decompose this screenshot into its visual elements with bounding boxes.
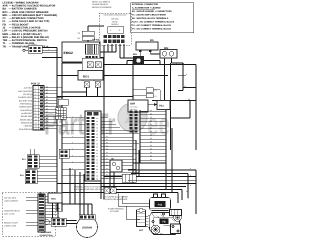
svg-text:00: 00 bbox=[46, 111, 48, 113]
svg-text:00: 00 bbox=[106, 171, 108, 173]
svg-text:—: — bbox=[9, 8, 12, 11]
svg-text:00: 00 bbox=[150, 148, 152, 150]
svg-text:00: 00 bbox=[46, 127, 48, 129]
svg-text:00: 00 bbox=[106, 155, 108, 157]
TB-N2 terminal rows bbox=[92, 35, 125, 43]
svg-text:B1 - MAJOR LEGEND + CONNECTORS: B1 - MAJOR LEGEND + CONNECTORS bbox=[132, 10, 172, 12]
svg-text:0: 0 bbox=[44, 46, 45, 48]
svg-text:60 HZ: 60 HZ bbox=[112, 21, 117, 23]
PCB J2 row 8 bbox=[21, 108, 57, 111]
svg-text:00: 00 bbox=[150, 134, 152, 136]
svg-text:CHARGE INPUT: CHARGE INPUT bbox=[18, 97, 32, 99]
svg-text:TB2: TB2 bbox=[3, 39, 8, 42]
svg-text:0: 0 bbox=[72, 116, 73, 118]
svg-text:—: — bbox=[9, 27, 12, 30]
wire MM verticals down bbox=[165, 58, 184, 150]
svg-text:T1 - 240V/50 AMP CIRCUIT BRKR: T1 - 240V/50 AMP CIRCUIT BRKR bbox=[132, 14, 166, 16]
svg-text:NOT USED: NOT USED bbox=[110, 211, 119, 213]
svg-text:COIL 12 VDC: COIL 12 VDC bbox=[4, 213, 15, 215]
wire verticals center-bottom bbox=[110, 130, 139, 188]
svg-text:02: 02 bbox=[96, 156, 98, 158]
svg-text:LOW OIL PRESSURE SWITCH: LOW OIL PRESSURE SWITCH bbox=[12, 30, 48, 33]
J1 pin row 17 bbox=[62, 168, 136, 171]
svg-text:BO1: BO1 bbox=[3, 11, 8, 14]
watermark tree logo bbox=[118, 103, 147, 132]
wire BO1 feeders bbox=[57, 60, 133, 100]
svg-text:02: 02 bbox=[96, 124, 98, 126]
J1 pin row 8 bbox=[87, 139, 136, 142]
svg-text:BA: BA bbox=[3, 8, 7, 11]
junction dots bbox=[56, 51, 166, 204]
svg-text:06: 06 bbox=[96, 137, 98, 139]
svg-text:00: 00 bbox=[46, 89, 48, 91]
T1 rung 8 bbox=[140, 134, 166, 136]
svg-text:LFP: LFP bbox=[3, 30, 8, 33]
T1 rung 14 bbox=[140, 155, 166, 157]
svg-text:10: 10 bbox=[35, 116, 37, 118]
svg-text:06: 06 bbox=[96, 169, 98, 171]
legend list top-left bbox=[3, 1, 58, 48]
PCB J2 row 3 bbox=[23, 92, 57, 95]
customer connections dashed box bottom bbox=[2, 192, 55, 236]
stator bbox=[77, 215, 98, 238]
svg-text:C2: C2 bbox=[78, 32, 81, 34]
svg-text:SENSE 240V: SENSE 240V bbox=[21, 116, 32, 118]
svg-text:AVR: AVR bbox=[130, 103, 135, 106]
svg-text:03: 03 bbox=[96, 127, 98, 129]
svg-text:R1: R1 bbox=[78, 37, 81, 39]
svg-text:FIELD BOOST: FIELD BOOST bbox=[12, 23, 29, 26]
svg-text:4: 4 bbox=[35, 97, 36, 99]
svg-text:SW1: SW1 bbox=[51, 198, 56, 200]
svg-text:00: 00 bbox=[150, 110, 152, 112]
svg-text:CMN GROUND: CMN GROUND bbox=[19, 128, 32, 130]
svg-text:00: 00 bbox=[46, 96, 48, 98]
svg-text:00: 00 bbox=[106, 136, 108, 138]
svg-text:00: 00 bbox=[150, 113, 152, 115]
svg-text:—: — bbox=[9, 23, 12, 26]
svg-text:11: 11 bbox=[35, 119, 37, 121]
wire center vertical x101 bbox=[100, 120, 102, 199]
svg-text:0: 0 bbox=[72, 161, 73, 163]
FS2 label bbox=[155, 201, 166, 207]
engine wires left bbox=[118, 194, 150, 220]
svg-text:00: 00 bbox=[150, 124, 152, 126]
svg-text:01: 01 bbox=[96, 153, 98, 155]
svg-text:PL4: PL4 bbox=[20, 174, 24, 176]
fuses F1 F2 right bbox=[133, 88, 160, 101]
wire bottom bundle bbox=[57, 181, 196, 184]
J1 pin row 15 bbox=[62, 161, 139, 164]
svg-text:03: 03 bbox=[96, 159, 98, 161]
J1 pin row 10 bbox=[87, 145, 133, 148]
svg-text:MM: MM bbox=[164, 47, 168, 50]
svg-text:T1: T1 bbox=[3, 42, 6, 45]
PCB J2 row 2 bbox=[18, 89, 57, 92]
PCB J2 row 13 bbox=[24, 124, 62, 127]
svg-text:0: 0 bbox=[190, 185, 191, 187]
customer connections dashed box top bbox=[99, 13, 131, 45]
svg-text:05: 05 bbox=[96, 166, 98, 168]
svg-text:0: 0 bbox=[72, 129, 73, 131]
svg-text:240 VAC 60HZ: 240 VAC 60HZ bbox=[4, 197, 16, 199]
svg-text:—: — bbox=[9, 30, 12, 33]
svg-text:—: — bbox=[9, 5, 12, 8]
svg-text:12: 12 bbox=[35, 122, 37, 124]
svg-text:00: 00 bbox=[96, 118, 98, 120]
svg-text:00: 00 bbox=[106, 177, 108, 179]
svg-text:RELAY 1 (START RELAY): RELAY 1 (START RELAY) bbox=[12, 33, 42, 36]
svg-text:T5 - A/C CONNECT TERMINAL BLOC: T5 - A/C CONNECT TERMINAL BLOCK bbox=[132, 28, 171, 30]
PCB J2 row 10 bbox=[21, 115, 62, 118]
diode D2 block left of strip bbox=[59, 149, 69, 158]
svg-text:SUPPLY: SUPPLY bbox=[111, 24, 118, 26]
sender HR bbox=[110, 158, 122, 172]
svg-text:00: 00 bbox=[46, 121, 48, 123]
J1 pin row 7 bbox=[62, 136, 133, 139]
T1 rung 7 bbox=[140, 131, 166, 133]
svg-text:00: 00 bbox=[46, 105, 48, 107]
terminal strip TB bottom-left bbox=[38, 192, 45, 232]
connector plug in customer box bbox=[108, 27, 124, 34]
svg-text:REQUIRED PER NAMEPLATE: REQUIRED PER NAMEPLATE bbox=[103, 199, 127, 201]
svg-text:TB-N2: TB-N2 bbox=[92, 39, 99, 42]
svg-text:AUX OUT: AUX OUT bbox=[24, 87, 32, 89]
svg-text:00: 00 bbox=[46, 92, 48, 94]
svg-text:—: — bbox=[9, 42, 12, 45]
J1 pin row 1 bbox=[62, 116, 108, 119]
PCB J2 row 14 bbox=[19, 127, 57, 130]
T1 rung 13 bbox=[140, 152, 166, 154]
svg-text:00: 00 bbox=[46, 118, 48, 120]
svg-text:BA: BA bbox=[150, 39, 154, 42]
wire verticals from customer conn to EMG area bbox=[100, 44, 134, 58]
LFP cylinder bbox=[137, 209, 146, 232]
svg-text:PL3: PL3 bbox=[22, 158, 26, 160]
battery charger BA bbox=[136, 39, 165, 56]
svg-text:T4 - A/C CONNECT TERMINAL BLOC: T4 - A/C CONNECT TERMINAL BLOCK bbox=[132, 24, 171, 26]
svg-text:PCB J2: PCB J2 bbox=[31, 83, 40, 86]
svg-text:1: 1 bbox=[110, 29, 111, 31]
PCB J2 row 9 bbox=[21, 111, 57, 114]
T1 rung 15 bbox=[140, 159, 166, 161]
J1 pin row 18 bbox=[87, 171, 139, 174]
svg-text:12: 12 bbox=[184, 86, 186, 88]
svg-text:00: 00 bbox=[150, 117, 152, 119]
PCB J2 row 12 bbox=[21, 121, 57, 124]
svg-text:0: 0 bbox=[188, 198, 189, 200]
svg-text:00: 00 bbox=[150, 145, 152, 147]
svg-text:—: — bbox=[9, 45, 12, 48]
svg-text:FUSE 15A (F1 AND F2 15A TYP): FUSE 15A (F1 AND F2 15A TYP) bbox=[12, 20, 50, 23]
T1 rung 1 bbox=[140, 110, 166, 112]
svg-text:07: 07 bbox=[96, 140, 98, 142]
svg-text:—: — bbox=[9, 33, 12, 36]
J1 pin row 2 bbox=[87, 120, 112, 122]
relay MM bbox=[160, 47, 177, 58]
wire long top run to right edge bbox=[104, 65, 196, 151]
svg-text:INTERFACE CONNECTION: INTERFACE CONNECTION bbox=[12, 17, 44, 20]
svg-text:0: 0 bbox=[186, 74, 187, 76]
svg-text:0: 0 bbox=[72, 155, 73, 157]
svg-text:EMG2: EMG2 bbox=[64, 51, 73, 55]
svg-text:A. ALTERNATOR + LEGEND: A. ALTERNATOR + LEGEND bbox=[132, 7, 161, 9]
svg-text:LEGEND - WIRING DIAGRAM: LEGEND - WIRING DIAGRAM bbox=[3, 1, 39, 4]
svg-text:BATTERY CHARGER: BATTERY CHARGER bbox=[12, 8, 37, 11]
svg-text:RUN SIGNAL: RUN SIGNAL bbox=[21, 109, 33, 111]
svg-text:POWER TERMINAL: POWER TERMINAL bbox=[108, 208, 124, 210]
PCB J2 row 7 bbox=[19, 105, 62, 108]
svg-text:2-WIRE START: 2-WIRE START bbox=[4, 225, 17, 227]
svg-text:ADD JUMPER BLOCK WHERE: ADD JUMPER BLOCK WHERE bbox=[103, 196, 128, 198]
PCB J2 divider lines bbox=[33, 89, 44, 127]
PCB J2 row 4 bbox=[18, 96, 62, 99]
svg-text:GROUND 0V: GROUND 0V bbox=[21, 122, 32, 124]
svg-text:BR1: BR1 bbox=[3, 14, 8, 17]
svg-text:00: 00 bbox=[150, 120, 152, 122]
svg-text:7: 7 bbox=[35, 106, 36, 108]
svg-text:HR: HR bbox=[111, 158, 114, 160]
svg-text:0: 0 bbox=[190, 175, 191, 177]
wire left vertical bus pair bbox=[57, 58, 62, 212]
J1 pin row 14 bbox=[87, 158, 136, 161]
svg-text:0: 0 bbox=[190, 168, 191, 170]
svg-text:C1 CONN: C1 CONN bbox=[28, 43, 37, 45]
J1 pin row 20 bbox=[87, 177, 136, 180]
capacitor C2 small boxes above EMG2 bbox=[78, 26, 105, 42]
note text top-center bbox=[92, 1, 112, 8]
svg-text:BR1: BR1 bbox=[133, 54, 137, 56]
svg-text:14: 14 bbox=[35, 129, 37, 131]
svg-text:09: 09 bbox=[96, 146, 98, 148]
watermark PartsTree text bbox=[44, 108, 170, 142]
svg-text:—: — bbox=[9, 14, 12, 17]
svg-text:0: 0 bbox=[72, 174, 73, 176]
T1 rung 2 bbox=[140, 113, 166, 115]
J1 pin row 6 bbox=[87, 132, 139, 135]
svg-text:0: 0 bbox=[48, 49, 49, 51]
svg-text:F2: F2 bbox=[155, 95, 157, 97]
svg-text:5: 5 bbox=[35, 100, 36, 102]
svg-text:120 VAC: 120 VAC bbox=[111, 18, 118, 20]
svg-text:FOR 3-PHASE SEE DWG 0E2753 SHT: FOR 3-PHASE SEE DWG 0E2753 SHT 2 bbox=[74, 189, 106, 191]
J1 pin row 9 bbox=[62, 142, 139, 145]
switch TB2 pin column bbox=[130, 111, 138, 133]
svg-text:08: 08 bbox=[96, 143, 98, 145]
svg-text:ALARM OUT: ALARM OUT bbox=[21, 112, 32, 114]
svg-text:J2: J2 bbox=[3, 27, 6, 30]
PCB J2 row 1 bbox=[24, 86, 62, 89]
svg-text:2: 2 bbox=[119, 29, 120, 31]
svg-text:L2: L2 bbox=[93, 80, 95, 82]
PCB J2 row 6 bbox=[20, 102, 57, 105]
svg-text:00: 00 bbox=[106, 174, 108, 176]
svg-text:—: — bbox=[9, 39, 12, 42]
svg-text:MM1: MM1 bbox=[3, 33, 9, 36]
aux block under HR bbox=[122, 174, 136, 182]
svg-text:—: — bbox=[9, 20, 12, 23]
EMG2 module box bbox=[62, 42, 100, 62]
svg-text:TB: TB bbox=[39, 192, 42, 194]
svg-text:08: 08 bbox=[96, 175, 98, 177]
wire top horizontal runs bbox=[42, 46, 104, 63]
svg-text:00: 00 bbox=[106, 132, 108, 134]
svg-text:0: 0 bbox=[72, 142, 73, 144]
note power terminal bbox=[108, 208, 124, 213]
svg-text:CONNECTOR J ON PCB: CONNECTOR J ON PCB bbox=[12, 27, 41, 30]
wires stator feeders bbox=[53, 168, 93, 224]
svg-text:LFP: LFP bbox=[139, 229, 143, 231]
BO1 terminals L1 L2 bbox=[82, 80, 101, 87]
svg-text:STATOR: STATOR bbox=[82, 226, 92, 229]
svg-text:04: 04 bbox=[96, 162, 98, 164]
svg-text:00: 00 bbox=[46, 115, 48, 117]
engine assembly outline bbox=[137, 194, 182, 235]
arrow AVR to TB3 bbox=[148, 103, 157, 106]
connector PL3 bbox=[22, 149, 57, 168]
svg-text:C1: C1 bbox=[3, 17, 6, 20]
svg-text:00: 00 bbox=[106, 145, 108, 147]
svg-text:VOLT REG: VOLT REG bbox=[130, 106, 137, 108]
fuse block F1 F2 bbox=[82, 58, 103, 70]
T1 rung 9 bbox=[140, 138, 166, 140]
svg-text:AVR: AVR bbox=[3, 5, 8, 8]
connector PL4 bbox=[20, 170, 57, 184]
svg-text:TR: TR bbox=[3, 45, 7, 48]
svg-text:REMOTE START: REMOTE START bbox=[4, 222, 18, 224]
svg-text:00: 00 bbox=[46, 108, 48, 110]
svg-text:04: 04 bbox=[96, 130, 98, 132]
relay SW1 bbox=[48, 193, 62, 203]
svg-text:0: 0 bbox=[72, 123, 73, 125]
circuit breaker BR1 bbox=[127, 54, 160, 65]
svg-text:00: 00 bbox=[106, 168, 108, 170]
relay K1 bbox=[56, 97, 69, 119]
svg-text:LOAD CONNECT: LOAD CONNECT bbox=[4, 200, 18, 202]
svg-text:00: 00 bbox=[150, 159, 152, 161]
svg-text:BO1: BO1 bbox=[83, 75, 89, 78]
terminal strip T1 ladder bbox=[133, 110, 166, 190]
svg-text:18 AWG UNLESS: 18 AWG UNLESS bbox=[92, 4, 108, 6]
svg-text:RELAY 2 (ENGINE RUN RELAY): RELAY 2 (ENGINE RUN RELAY) bbox=[12, 36, 49, 39]
regulator AVR bbox=[128, 100, 148, 112]
svg-text:00: 00 bbox=[106, 142, 108, 144]
svg-text:CONNECTIONS: CONNECTIONS bbox=[39, 234, 52, 236]
svg-text:ADJ 240V: ADJ 240V bbox=[130, 109, 137, 111]
T1 rung 5 bbox=[140, 124, 166, 126]
svg-text:00: 00 bbox=[46, 124, 48, 126]
svg-text:00: 00 bbox=[106, 164, 108, 166]
svg-text:MAIN LINE CIRCUIT BREAKER: MAIN LINE CIRCUIT BREAKER bbox=[12, 11, 49, 14]
connector J1 strip bbox=[85, 111, 101, 181]
svg-text:AUTO/OFF/MANUAL SWITCH: AUTO/OFF/MANUAL SWITCH bbox=[12, 39, 47, 42]
J1 pin row 19 bbox=[62, 174, 133, 177]
J1 pin row 5 bbox=[62, 129, 136, 132]
svg-text:00: 00 bbox=[150, 141, 152, 143]
EMG2 transformer striped block bbox=[85, 44, 98, 54]
connector C1 bbox=[23, 43, 42, 53]
svg-text:B2 - NEUTRAL BLOCK TERMINALS: B2 - NEUTRAL BLOCK TERMINALS bbox=[132, 17, 168, 19]
wire bundle to engine bbox=[62, 128, 196, 214]
svg-text:CIRCUIT BREAKER (BATT CHARGER): CIRCUIT BREAKER (BATT CHARGER) bbox=[12, 14, 57, 17]
svg-text:00: 00 bbox=[106, 161, 108, 163]
svg-text:N1: N1 bbox=[188, 98, 190, 100]
svg-text:09: 09 bbox=[96, 178, 98, 180]
svg-text:1: 1 bbox=[35, 87, 36, 89]
svg-text:00: 00 bbox=[106, 158, 108, 160]
J1 pin row 12 bbox=[87, 152, 139, 155]
svg-text:WIRING (OPT): WIRING (OPT) bbox=[19, 106, 32, 108]
note terminal strips bbox=[74, 186, 110, 191]
T1 rung 4 bbox=[140, 120, 166, 122]
T1 rung 10 bbox=[140, 141, 166, 143]
svg-text:00: 00 bbox=[106, 148, 108, 150]
circuit breaker BO1 bbox=[78, 71, 103, 81]
svg-text:TRANSFER RELAY: TRANSFER RELAY bbox=[4, 210, 20, 212]
svg-text:0: 0 bbox=[72, 136, 73, 138]
J1 pin row 3 bbox=[62, 123, 116, 126]
connector PCB J2 bbox=[31, 83, 44, 131]
J1 pin row 16 bbox=[87, 164, 133, 167]
svg-text:00: 00 bbox=[96, 150, 98, 152]
svg-text:6: 6 bbox=[35, 103, 36, 105]
wire center vertical x104 bbox=[103, 45, 105, 199]
svg-text:00: 00 bbox=[46, 99, 48, 101]
svg-text:01: 01 bbox=[96, 121, 98, 123]
svg-text:00: 00 bbox=[182, 62, 184, 64]
svg-text:L1: L1 bbox=[82, 80, 84, 82]
svg-text:AUTOMATIC VOLTAGE REGULATOR: AUTOMATIC VOLTAGE REGULATOR bbox=[12, 5, 56, 8]
EMG2 pin row bbox=[85, 56, 97, 59]
PCB J2 row 5 bbox=[19, 99, 57, 102]
svg-text:—: — bbox=[9, 11, 12, 14]
svg-text:NOTE: ALL WIRE IS: NOTE: ALL WIRE IS bbox=[92, 1, 110, 3]
svg-text:FS2: FS2 bbox=[158, 204, 163, 207]
svg-text:NOTED OTHERWISE: NOTED OTHERWISE bbox=[92, 6, 112, 8]
svg-text:FB: FB bbox=[3, 23, 6, 26]
svg-text:FUEL SHUTOFF: FUEL SHUTOFF bbox=[18, 90, 32, 92]
svg-text:00: 00 bbox=[106, 129, 108, 131]
svg-text:07: 07 bbox=[96, 172, 98, 174]
svg-text:0: 0 bbox=[72, 168, 73, 170]
svg-text:13: 13 bbox=[35, 125, 37, 127]
connector near stator bbox=[44, 218, 66, 226]
svg-text:LOW BAT: LOW BAT bbox=[24, 125, 32, 127]
fuse pair bottom bbox=[104, 188, 116, 194]
svg-text:—: — bbox=[9, 17, 12, 20]
wire right mid jog bbox=[57, 76, 196, 119]
svg-text:00: 00 bbox=[106, 152, 108, 154]
svg-text:05: 05 bbox=[96, 134, 98, 136]
J1 pin row 4 bbox=[87, 126, 120, 128]
svg-text:8: 8 bbox=[35, 110, 36, 112]
svg-text:0: 0 bbox=[72, 148, 73, 150]
svg-text:SW1: SW1 bbox=[3, 36, 9, 39]
svg-text:9: 9 bbox=[35, 113, 36, 115]
terminal TB3 bbox=[157, 101, 170, 110]
svg-text:12V DC(+): 12V DC(+) bbox=[23, 93, 32, 95]
svg-text:00: 00 bbox=[106, 139, 108, 141]
wire right edge labels bbox=[176, 62, 191, 199]
svg-text:2: 2 bbox=[35, 91, 36, 93]
FB label bbox=[160, 219, 169, 225]
wires text to TB bbox=[26, 196, 63, 226]
svg-text:BATTERY CHG: BATTERY CHG bbox=[19, 100, 32, 102]
legend box top-right bbox=[131, 3, 194, 33]
svg-text:FB: FB bbox=[162, 221, 165, 224]
svg-text:CUSTOMER CONNECTIONS: CUSTOMER CONNECTIONS bbox=[104, 14, 127, 16]
svg-text:00: 00 bbox=[150, 155, 152, 157]
